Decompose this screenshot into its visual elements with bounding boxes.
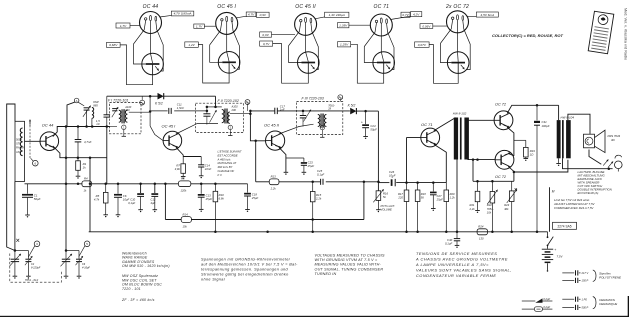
FI trimmer (112, 107, 118, 117)
svg-text:2,2k: 2,2k (315, 197, 322, 201)
svg-text:A: A (76, 99, 78, 103)
wire OC72 upper collector rail (507, 105, 558, 113)
voltage label 4,2V at collector of OC 71 (411, 12, 422, 17)
wire pinout bottom pin to collector (226, 22, 228, 52)
wire secondary bottom to earphone jack (563, 158, 613, 168)
FII coils with core (222, 109, 230, 124)
legend ceramic capacitor 1 (562, 297, 587, 302)
svg-text:C12: C12 (151, 198, 156, 202)
wire OC72 lower emitter (508, 153, 514, 156)
svg-text:A LAMPE UNIVERSELLE A 7,5V: A LAMPE UNIVERSELLE A 7,5V= (415, 262, 489, 267)
wire pinout left pin to base (289, 22, 301, 62)
svg-text:R21: R21 (470, 203, 475, 207)
bottom border line (0, 316, 629, 317)
wire from 1,7V box to pinout circle (130, 25, 140, 27)
capacitor C2 4,7nF (75, 127, 92, 158)
variable capacitor C1a (9, 254, 21, 279)
voltage label 0,06V at base of 2x OC 72 (420, 24, 433, 29)
diode K 5/2 (detector) (348, 104, 357, 115)
wire OC72 lower collector (508, 166, 514, 181)
svg-text:25µF: 25µF (251, 196, 259, 200)
junction dots on collector rail (65, 125, 68, 128)
node junction tuning 2 (65, 249, 68, 252)
svg-text:OC 45 I: OC 45 I (162, 124, 177, 129)
stamp ARCHER radio museum (rotated) (588, 11, 614, 54)
FI ground stub (123, 130, 125, 137)
svg-text:OUT SIGNAL. TUNING CONDENSE: OUT SIGNAL. TUNING CONDENSER (315, 267, 384, 271)
node 1 in FIII (320, 125, 324, 129)
wire pinout left pin to base (210, 21, 222, 62)
text French measuring note (415, 251, 512, 278)
svg-text:OM MW 510 - 1620 kc/s(m): OM MW 510 - 1620 kc/s(m) (122, 264, 170, 268)
svg-text:25µF: 25µF (205, 197, 213, 201)
svg-text:0,07V: 0,07V (418, 43, 427, 47)
svg-text:3,9k: 3,9k (175, 167, 181, 171)
wire rail into FII primary (215, 96, 217, 107)
FI coils with core (119, 109, 128, 123)
trimmer capacitor C1b (25, 256, 33, 279)
wire pinout left pin to base (134, 20, 146, 64)
svg-text:TURNED IN: TURNED IN (315, 272, 337, 276)
resistor R8 (oval, in rail) (178, 181, 190, 187)
driver transformer HW 8-102 (453, 112, 469, 160)
wire y219.5 R14 line (165, 219, 181, 221)
svg-text:50µF: 50µF (34, 197, 41, 201)
wire pinout bottom pin to collector (457, 20, 459, 52)
wire vertical x66 (65, 127, 67, 184)
wire from collector label box to pinout circle (236, 16, 246, 18)
svg-text:COLLECTOR(C) = RED, ROUGE, ROT: COLLECTOR(C) = RED, ROUGE, ROT (492, 33, 563, 38)
wire from 1,35V box to pinout circle (349, 24, 371, 26)
wire node A left to collector rail (67, 102, 75, 126)
voltage label 4,5V 6mA at collector of 2x OC 72 (476, 12, 498, 17)
svg-text:R20: R20 (450, 192, 455, 196)
svg-text:1,4V 240µA: 1,4V 240µA (329, 13, 345, 17)
svg-text:OC 72: OC 72 (495, 102, 507, 106)
vertical margin text right edge (624, 8, 628, 60)
svg-text:F II 7220-102: F II 7220-102 (218, 99, 239, 103)
svg-text:OC 45 I: OC 45 I (217, 4, 236, 10)
voltage label 0,07V at emitter of 2x OC 72 (415, 42, 430, 47)
transistor pinout diagram OC 45 I (216, 4, 238, 35)
part number box 2274 SA5 (553, 222, 577, 229)
resistor R4 (oval, in rail) (82, 181, 92, 187)
resistor R20 1,2k (444, 183, 455, 232)
note text limiter adjustment (553, 198, 596, 210)
wire OC71 base vertical (406, 138, 408, 183)
node AM after FII (247, 104, 249, 111)
svg-text:10µF: 10µF (123, 197, 130, 201)
note text earphone jack (578, 170, 613, 195)
capacitor C30 0,1µF below bus (445, 232, 460, 248)
svg-text:1,2k: 1,2k (450, 195, 456, 199)
transistor pinout diagram OC 44 (140, 4, 162, 34)
wire driver secondary to OC72 upper base (468, 119, 495, 121)
legend wedge capacitor 0,2µF (522, 297, 553, 303)
wire OC44 emitter rail (53, 146, 107, 158)
capacitor C3 1,5nF (96, 96, 110, 126)
wire from collector label box to pinout circle (160, 15, 172, 17)
svg-text:R13: R13 (271, 175, 277, 179)
diode K 5/2 (oscillator) (155, 93, 164, 106)
capacitor C27 25µF (430, 183, 443, 211)
resistor R19 1 ohm (514, 140, 535, 161)
resistor R14 (oval) (181, 217, 191, 223)
resistor R24 (oval, in bus) (477, 224, 487, 240)
node AM after FIII (339, 100, 341, 102)
wire FI secondary to junction (129, 111, 150, 113)
wire node A to oscillator trimmer (78, 102, 84, 106)
wire junction vertical x150 (149, 96, 151, 126)
wire FI primary bottom (107, 126, 117, 128)
svg-text:R24: R24 (478, 224, 484, 228)
wire driver secondary to OC72 lower base (468, 159, 496, 161)
voltage label 1,7V at base of OC 45 I (194, 24, 205, 28)
ferrite rod antenna L1 (15, 121, 25, 181)
svg-text:0,1µF: 0,1µF (128, 201, 135, 205)
svg-text:200: 200 (231, 108, 237, 112)
svg-text:130: 130 (479, 237, 484, 241)
capacitor C6 10µF electrolytic (114, 184, 130, 218)
svg-text:1,5nF: 1,5nF (177, 106, 184, 110)
wire from collector label box to pinout circle (391, 16, 411, 19)
svg-text:M: M (552, 190, 555, 194)
svg-text:4,5V 6mA: 4,5V 6mA (481, 13, 495, 17)
text oscillator coil set column (122, 274, 162, 291)
FIII capacitor (300, 110, 306, 127)
transistor OC 44 (mixer) (40, 122, 59, 150)
wire pinout left pin to base (441, 20, 453, 63)
wire AGC line y181.8 (256, 181, 270, 183)
wire OC71 emitter (434, 144, 447, 182)
wire pinout right pin to emitter loop (463, 21, 470, 70)
capacitor C23 25µF (286, 158, 314, 175)
svg-text:R14: R14 (183, 212, 189, 216)
tuning core arrow antenna (29, 122, 31, 159)
node junction tuning 1 (14, 249, 17, 252)
wire emitter to voltage box loop (198, 45, 229, 83)
svg-text:100µF: 100µF (542, 124, 550, 128)
potentiometer R16 5k volume (373, 189, 395, 212)
resistor R13 (oval in AGC line) (269, 179, 279, 185)
svg-text:OC 44: OC 44 (143, 4, 159, 10)
svg-text:7051-: 7051- (487, 207, 494, 211)
svg-text:R18: R18 (421, 192, 426, 196)
resistor R18 56 (415, 183, 426, 232)
svg-text:28: 28 (327, 107, 331, 111)
transistor OC 45 II (2nd IF amp) (264, 122, 285, 150)
svg-text:F II: F II (218, 173, 222, 177)
svg-text:OC 71: OC 71 (373, 4, 389, 10)
capacitor C13 25µF (198, 184, 213, 212)
svg-text:+: + (361, 120, 363, 124)
output transformer HW 8-104 (557, 115, 575, 158)
svg-text:4-16pF: 4-16pF (82, 266, 90, 269)
svg-text:0,68V: 0,68V (109, 43, 118, 47)
wire pinout bottom pin to collector (150, 21, 152, 54)
text English measuring note (315, 253, 385, 276)
voltage label 1,2V at emitter of OC 45 I (185, 42, 199, 47)
wire jack switch down to battery line (549, 187, 551, 232)
svg-text:4,2V: 4,2V (413, 13, 420, 17)
oscillator coil L2 (92, 108, 94, 127)
svg-text:R4: R4 (84, 177, 88, 181)
wire secondary top to speaker (568, 114, 590, 134)
resistor R5 4,7k (94, 184, 108, 218)
legend styroflex capacitor 2 (562, 278, 588, 283)
capacitor C26 10µF coupling (389, 170, 396, 186)
transistor OC 45 I (1st IF amp) (162, 124, 182, 150)
capacitor C31 100µF (534, 105, 550, 232)
battery 7,5V (542, 245, 564, 271)
svg-text:Med. Ver. v. Klassika v/d Radi: Med. Ver. v. Klassika v/d Radio (624, 8, 628, 60)
transistor symbol OC 71 (373, 52, 395, 74)
wire emitter to voltage box loop (429, 45, 458, 84)
resistor R1 1k (76, 158, 87, 179)
resistor R7 3,9k (175, 157, 186, 180)
wire pinout right pin to emitter loop (232, 22, 239, 69)
voltage label 1,4V 240µA at collector of OC 45 II (325, 12, 349, 17)
svg-text:VOLUME: VOLUME (381, 207, 393, 211)
gang coupling dashed line (10, 254, 62, 283)
svg-text:ZF . 3F = 460 kc/s: ZF . 3F = 460 kc/s (121, 298, 155, 302)
FIII trimmer arrow (304, 110, 312, 122)
voltage label 1,25V at emitter of OC 71 (338, 42, 351, 47)
wire from 0,06V box to pinout circle (433, 25, 447, 27)
wire rail to OC45II base (250, 111, 265, 141)
svg-text:4,7k: 4,7k (94, 197, 100, 201)
node AM after FI (141, 96, 143, 100)
svg-text:50µF: 50µF (370, 128, 377, 132)
svg-text:CERAMIQUE: CERAMIQUE (599, 302, 618, 306)
transistor symbol OC 45 II (298, 52, 320, 74)
svg-text:2,2k: 2,2k (469, 207, 476, 211)
capacitor C17 1nF (in rail) (275, 104, 286, 114)
svg-text:CORRIGER AVEC R24 A 7,5V: CORRIGER AVEC R24 A 7,5V (554, 206, 594, 210)
svg-text:+: + (391, 175, 393, 179)
svg-text:2x OC 72: 2x OC 72 (445, 4, 469, 10)
legend styroflex capacitor 1 (562, 270, 588, 275)
node 5 (84, 241, 90, 247)
svg-text:Spannungen mit GRUNDIG-Röhrenv: Spannungen mit GRUNDIG-Röhrenvoltmeter (201, 258, 291, 262)
svg-text:8-220pF: 8-220pF (31, 266, 41, 269)
resistor R17 220 (397, 183, 408, 232)
wire antenna to OC44 base (25, 140, 41, 142)
wire pinout right pin to emitter loop (156, 21, 163, 71)
wire vertical x66 to tuning gang (65, 184, 67, 251)
svg-text:4,7nF: 4,7nF (84, 140, 92, 144)
trimmer capacitor C5b (76, 256, 84, 279)
svg-text:1,35V: 1,35V (339, 24, 348, 28)
transistor pinout diagram OC 71 (370, 4, 392, 36)
voltage label 4,7V 0,85mA at collector of OC 44 (171, 11, 194, 16)
on-off switch (547, 232, 554, 247)
transistor symbol 2x OC 72 (447, 52, 469, 74)
wire tuning section feed C5 (65, 251, 67, 259)
capacitor C24 10µF electrolytic (361, 111, 377, 139)
svg-text:HW 8-104: HW 8-104 (561, 115, 575, 119)
capacitor C18 25µF (244, 184, 258, 212)
wire detector rail y96 (107, 95, 158, 97)
transistor OC 72 lower (output) (495, 150, 514, 178)
wire OC71 base horizontal (407, 137, 421, 139)
svg-text:+: + (554, 248, 556, 252)
variable capacitor C5a (61, 254, 73, 279)
wire antenna left edge down to tuning gang (14, 182, 16, 251)
svg-text:F I 7220-101: F I 7220-101 (108, 98, 128, 102)
resistor R15 2,2k (310, 182, 321, 232)
capacitor C11 1,5nF (150, 102, 208, 114)
svg-text:4,7V: 4,7V (248, 13, 255, 17)
wire rail after detector (356, 110, 378, 112)
jack switch contact arrows (603, 159, 608, 165)
text German measuring note (201, 258, 298, 282)
voltage label 0,68V at emitter of OC 44 (106, 43, 120, 48)
wire pinout left pin to base (364, 23, 376, 63)
svg-text:C10: C10 (130, 198, 135, 202)
wire OC45II emitter to ground (279, 147, 286, 172)
svg-text:ECOUTEUR (A): ECOUTEUR (A) (578, 191, 599, 195)
voltage label 0,9V at collector of OC 45 II (257, 12, 270, 17)
wire driver primary bottom to bus and C30 (456, 160, 458, 232)
voltage label 0,9V at base of OC 45 II (260, 32, 272, 37)
svg-text:0,9V: 0,9V (262, 33, 269, 37)
FIII coils with core (318, 114, 327, 128)
svg-text:K 5/2: K 5/2 (348, 104, 356, 108)
wire from 1,7V box to pinout circle (204, 25, 216, 27)
note text matching stage (217, 150, 242, 177)
wire coupling line y182.6 (378, 182, 389, 184)
wire OC45I collector to FII (176, 124, 218, 134)
svg-text:1k: 1k (83, 166, 87, 170)
wire FII cap-coil link (207, 106, 222, 108)
svg-text:MEASURING VALUES VALID WITH: MEASURING VALUES VALID WITH- (315, 263, 382, 267)
svg-text:0,06V: 0,06V (422, 24, 431, 28)
marker X (16, 239, 19, 242)
wire OC71 collector to driver transformer (434, 118, 456, 131)
wire pinout bottom pin to collector (380, 23, 382, 52)
svg-text:120k: 120k (181, 189, 187, 193)
wire tuning section feed C1 (14, 251, 16, 259)
svg-text:TENSIONS DE SERVICE MESUREE: TENSIONS DE SERVICE MESUREES (416, 251, 497, 256)
capacitor C12 4µF (151, 184, 159, 212)
wire OC44 collector to IF rail (53, 127, 110, 137)
wire OC45II base down to AGC (255, 141, 257, 182)
svg-text:0,1µF: 0,1µF (445, 242, 452, 246)
wire AGC vertical x165 (164, 184, 166, 220)
potentiometer R23 (504, 181, 517, 232)
svg-text:1 P0: 1 P0 (582, 297, 588, 301)
FII ground stub (229, 130, 231, 136)
legend brace ceramic (593, 297, 596, 309)
svg-text:OC 71: OC 71 (421, 122, 433, 127)
legend ceramic capacitor 2 (562, 305, 588, 310)
IF transformer FIII 7220-103 (dashed can) (297, 97, 343, 135)
svg-text:VALEURS SONT VALABLES SANS: VALEURS SONT VALABLES SANS SIGNAL, (416, 268, 512, 273)
transistor pinout diagram 2x OC 72 (445, 4, 469, 33)
svg-text:POLYSTYRENE: POLYSTYRENE (599, 276, 622, 280)
node A oscillator (74, 98, 79, 103)
right border line (628, 296, 629, 317)
text wave range column (122, 251, 170, 268)
wire bias rail y184 (25, 183, 83, 185)
earphone jack (615, 155, 623, 171)
svg-text:25µF: 25µF (436, 197, 444, 201)
svg-text:220: 220 (397, 195, 403, 199)
svg-text:auf den Meßbereichen 10/3/1 V: auf den Meßbereichen 10/3/1 V bei 7,5 V … (201, 263, 298, 267)
svg-text:nF: nF (97, 122, 101, 126)
svg-text:0,7V: 0,7V (263, 42, 270, 46)
wire emitter to voltage box loop (351, 44, 384, 83)
svg-text:22nF: 22nF (204, 167, 212, 171)
svg-text:1nF: 1nF (280, 108, 285, 112)
svg-text:217 V: 217 V (581, 271, 589, 275)
output transformer centre-tap tick (556, 158, 561, 166)
svg-text:150 P: 150 P (582, 279, 589, 283)
FII capacitor (203, 107, 210, 125)
node 3 (34, 241, 40, 247)
svg-text:CONDENSATEUR VARIABLE FERME: CONDENSATEUR VARIABLE FERME (416, 273, 496, 278)
wire from collector label box to pinout circle (467, 15, 477, 17)
svg-text:1,7V: 1,7V (196, 24, 203, 28)
svg-text:ohne Signal: ohne Signal (201, 278, 225, 282)
svg-text:WITH GRUNDIG VTVM AT 7.5 V: WITH GRUNDIG VTVM AT 7.5 V = (315, 258, 379, 262)
svg-text:500 P: 500 P (582, 306, 589, 310)
capacitor C1 electrolytic at antenna bottom (22, 184, 41, 218)
main negative bus wire (89, 231, 548, 233)
svg-text:OC 45 II: OC 45 II (295, 4, 316, 10)
svg-text:1,25V: 1,25V (340, 43, 349, 47)
wire speaker to jack contacts (589, 150, 601, 165)
svg-text:F III 7220-103: F III 7220-103 (302, 97, 324, 101)
wire IF rail y111 (250, 110, 274, 112)
svg-text:C27: C27 (437, 194, 442, 198)
svg-text:4,7V 0,85mA: 4,7V 0,85mA (174, 12, 192, 16)
wire from 0,9V box to pinout circle (272, 34, 296, 36)
svg-text:HW 8-102: HW 8-102 (453, 112, 467, 116)
svg-text:POTI LAUT.: POTI LAUT. (381, 204, 396, 208)
svg-text:R23: R23 (504, 203, 509, 207)
resistor R21 2,2k (469, 181, 480, 213)
svg-text:2274 SA5: 2274 SA5 (557, 224, 571, 228)
wire emitter to voltage box loop (120, 45, 153, 85)
voltage label 0,7V at collector of OC 71 (401, 12, 410, 17)
tone network rail y181.3 (473, 180, 514, 182)
wire from collector label box to pinout circle (315, 17, 325, 19)
svg-text:OC 44: OC 44 (42, 122, 54, 127)
wire detector output down x378.4 (377, 111, 379, 191)
svg-text:200: 200 (124, 108, 130, 112)
loudspeaker FRS 7043 (584, 130, 621, 152)
transistor symbol OC 45 I (218, 52, 240, 74)
svg-text:K 5/2: K 5/2 (155, 101, 163, 105)
legend box capacitor 0,2µF (522, 305, 553, 311)
svg-text:OC 45 II: OC 45 II (264, 122, 280, 127)
capacitor C25 0,1µF (in AGC line) (317, 169, 324, 185)
wire AGC to R14 line (363, 182, 365, 220)
svg-text:A CHASSIS AVEC GRUNDIG VOL: A CHASSIS AVEC GRUNDIG VOLTMETRE (415, 256, 508, 261)
wire OC72 upper emitter (507, 127, 514, 156)
wire FII secondary to OC45II base feed (230, 113, 251, 115)
voltage label 1,7V at base of OC 44 (116, 23, 130, 28)
svg-text:0,2µF: 0,2µF (543, 305, 550, 309)
node 1 in FI (122, 125, 126, 129)
svg-text:0,1µF: 0,1µF (317, 173, 324, 177)
wire lower collector to output transformer (514, 160, 568, 172)
IF transformer FII 7220-102 (dashed can) (196, 99, 244, 133)
potentiometer R22 tone (487, 181, 498, 232)
svg-text:40k: 40k (504, 207, 509, 211)
